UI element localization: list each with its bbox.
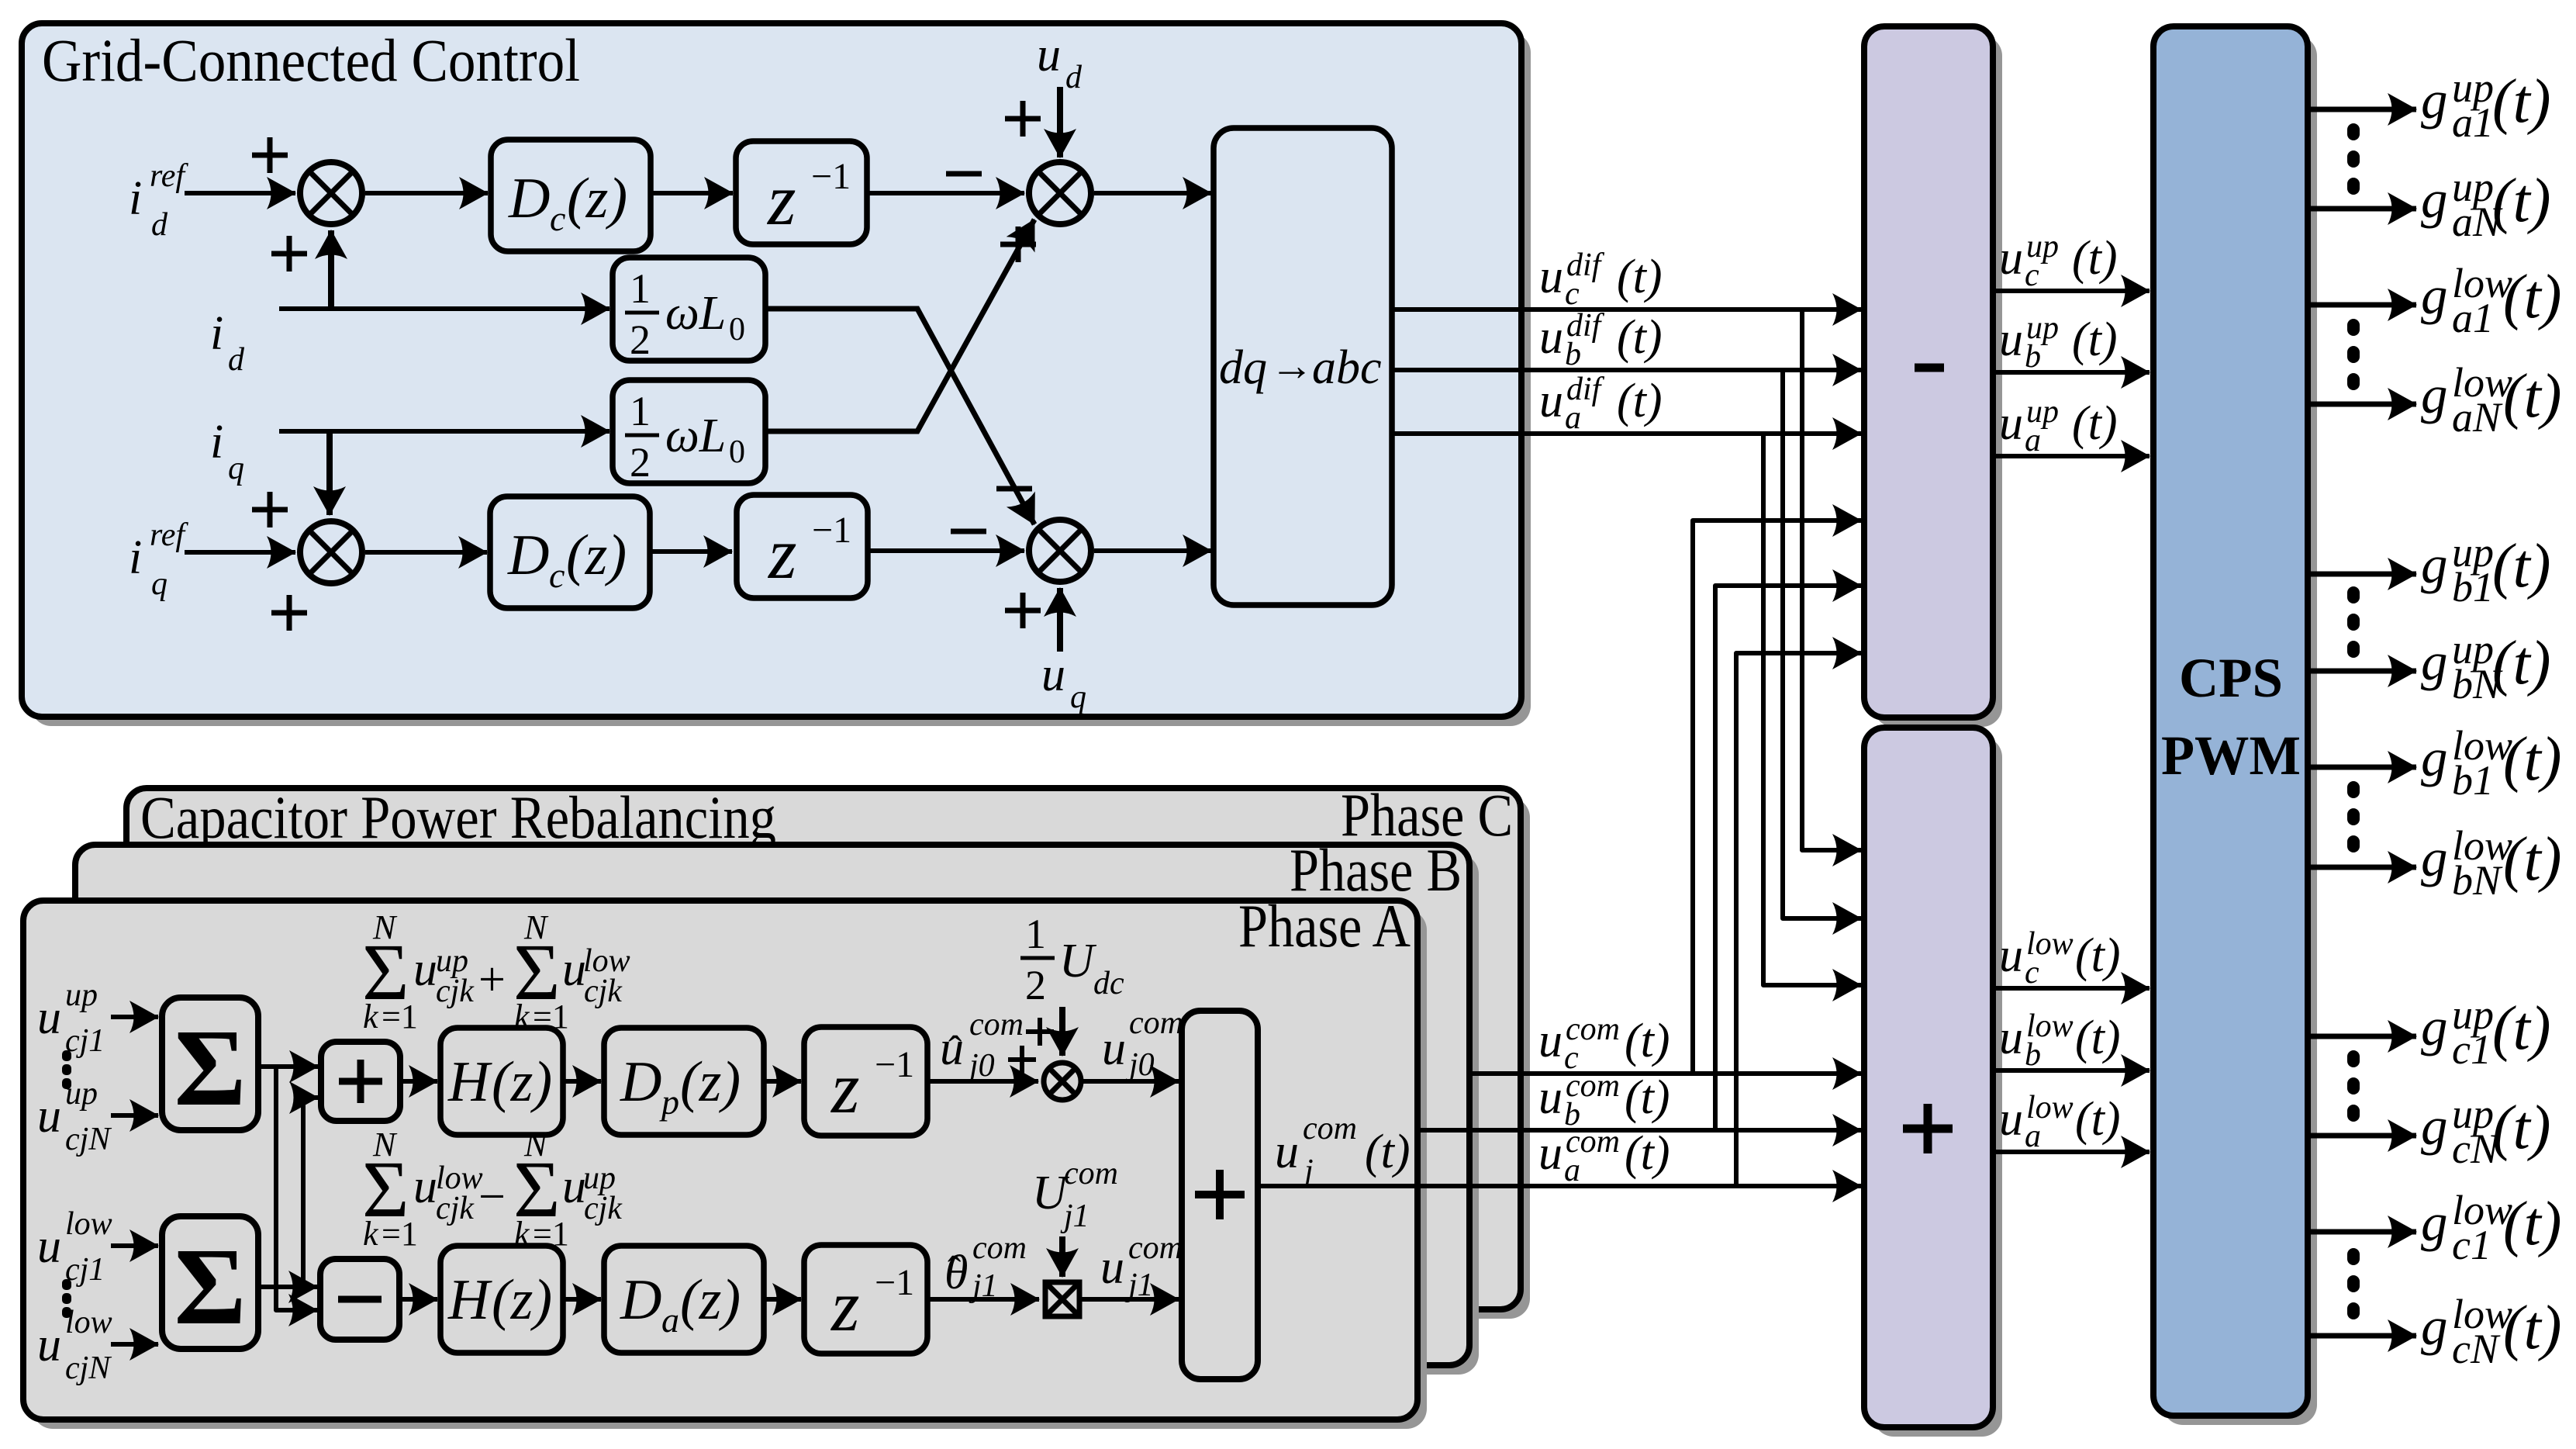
- svg-text:bN: bN: [2452, 857, 2503, 904]
- svg-text:g: g: [2421, 1297, 2448, 1356]
- dots between outputs: [2347, 586, 2360, 658]
- svg-text:u: u: [1539, 375, 1563, 427]
- block Dc(z) lower: [490, 496, 650, 608]
- svg-text:(t): (t): [2072, 313, 2118, 366]
- svg-text:g: g: [2421, 365, 2448, 424]
- wire mult box to combiner: [1079, 1297, 1179, 1302]
- svg-text:u: u: [1999, 1012, 2023, 1064]
- wire S2 to dq block: [1094, 191, 1211, 195]
- svg-text:k: k: [363, 1215, 379, 1253]
- plus box: [1864, 728, 1993, 1427]
- summing junction S1: [300, 162, 362, 224]
- svg-text:b: b: [2025, 1037, 2041, 1073]
- svg-text:N: N: [372, 1126, 398, 1164]
- label g_b1_low: [2421, 722, 2562, 804]
- wire u_cjN_low to sigma2: [111, 1342, 158, 1347]
- grid-connected control box: [22, 23, 1521, 717]
- svg-text:u: u: [1275, 1126, 1299, 1178]
- block z^-1 fourth: [804, 1245, 927, 1354]
- dots between outputs: [2347, 1050, 2360, 1122]
- minus box glyph: [1915, 364, 1944, 372]
- dots between outputs: [2347, 1248, 2360, 1319]
- svg-text:u: u: [1539, 251, 1563, 303]
- svg-text:c: c: [2025, 955, 2039, 991]
- svg-text:(t): (t): [1617, 375, 1663, 427]
- label U_j1_com: [1032, 1156, 1118, 1234]
- svg-text:g: g: [2421, 1097, 2448, 1156]
- wire z13 to mult circle: [927, 1079, 1038, 1084]
- wire g_bN_low output: [2308, 865, 2416, 870]
- svg-text:u: u: [1999, 397, 2023, 450]
- label u_j1_com: [1100, 1230, 1183, 1303]
- svg-text:q: q: [151, 566, 167, 602]
- summing junction S3: [300, 521, 362, 583]
- svg-text:low: low: [65, 1305, 112, 1340]
- wire u_c_com line: [1471, 1071, 1861, 1076]
- label u_cj1_up: [37, 977, 105, 1059]
- wire Dc2 to z12: [650, 549, 732, 554]
- svg-text:up: up: [65, 1076, 98, 1112]
- label u_a_dif: [1539, 372, 1663, 436]
- phase A box: [23, 901, 1417, 1420]
- svg-text:(z): (z): [567, 167, 627, 230]
- svg-text:(z): (z): [680, 1268, 741, 1332]
- svg-text:z: z: [767, 514, 797, 594]
- mult circle ujo: [1044, 1063, 1081, 1100]
- svg-text:g: g: [2421, 266, 2448, 325]
- svg-text:com: com: [969, 1007, 1024, 1043]
- wire H1 to Dp: [563, 1079, 601, 1084]
- svg-text:u: u: [37, 1319, 61, 1371]
- svg-text:d: d: [1065, 60, 1083, 95]
- formula sum up plus low: [362, 908, 630, 1036]
- block combiner plus: [1182, 1011, 1258, 1379]
- svg-text:com: com: [1129, 1005, 1183, 1041]
- label u_b_com: [1538, 1068, 1670, 1133]
- wire U_j1 down to mult box: [1059, 1236, 1065, 1277]
- wire i_d_ref to S1: [185, 191, 295, 195]
- plus sign mult upper: [1026, 1018, 1054, 1046]
- svg-text:(t): (t): [2072, 232, 2118, 285]
- svg-text:→: →: [1270, 342, 1314, 390]
- svg-text:d: d: [151, 207, 168, 243]
- wire u_a_low: [1993, 1150, 2150, 1154]
- label g_bN_up: [2421, 626, 2551, 707]
- wire wL2 to S2 diagonal: [765, 220, 1034, 431]
- label theta_hat_j1_com: [944, 1230, 1027, 1304]
- label g_c1_up: [2421, 991, 2551, 1073]
- wire sigma1 branch down to minus block: [276, 1067, 317, 1310]
- mult box uj1: [1045, 1282, 1079, 1316]
- svg-text:(t): (t): [2072, 397, 2118, 450]
- CPS PWM box shadow: [2163, 36, 2317, 1425]
- wire u_a_com branch up to minus box: [1736, 653, 1861, 1186]
- svg-text:k: k: [363, 998, 379, 1036]
- svg-text:(t): (t): [2503, 1294, 2562, 1362]
- svg-text:q: q: [228, 451, 244, 486]
- summing junction S4: [1029, 520, 1091, 582]
- plus sign S2 top: [1005, 101, 1041, 137]
- wire u_a_dif line: [1392, 431, 1861, 436]
- svg-text:(t): (t): [2075, 1012, 2121, 1064]
- svg-text:u: u: [1999, 313, 2023, 366]
- label g_aN_up: [2421, 164, 2551, 245]
- plus sign S2 bottom-left: [1000, 227, 1036, 262]
- label i_d: [210, 307, 245, 378]
- minus box shadow: [1873, 36, 2002, 727]
- svg-text:Capacitor Power Rebalancing: Capacitor Power Rebalancing: [140, 783, 776, 851]
- svg-text:b1: b1: [2452, 757, 2494, 804]
- svg-text:c: c: [549, 555, 565, 595]
- svg-text:+: +: [478, 953, 506, 1006]
- block z^-1 third: [804, 1027, 927, 1136]
- svg-text:(t): (t): [2492, 167, 2551, 235]
- svg-text:j1: j1: [1060, 1198, 1089, 1234]
- label u_j_com_t: [1275, 1111, 1411, 1189]
- svg-text:d: d: [228, 342, 245, 378]
- svg-text:c1: c1: [2452, 1222, 2491, 1268]
- svg-text:u: u: [1999, 929, 2023, 982]
- label g_bN_low: [2421, 822, 2562, 904]
- svg-text:i: i: [129, 172, 142, 225]
- dots between outputs: [2347, 781, 2360, 852]
- svg-text:−1: −1: [875, 1262, 914, 1303]
- svg-text:N: N: [372, 908, 398, 946]
- svg-text:u: u: [413, 1160, 437, 1213]
- svg-text:g: g: [2421, 998, 2448, 1056]
- svg-text:2: 2: [1025, 962, 1046, 1008]
- block Dc(z) upper: [491, 140, 651, 251]
- label u_c_com: [1538, 1012, 1670, 1076]
- minus box: [1864, 26, 1993, 718]
- wire u_c_dif branch down to plus box: [1802, 310, 1861, 850]
- wire g_aN_low output: [2308, 402, 2416, 407]
- block z^-1 second: [737, 495, 868, 598]
- minus sign S2 left: [946, 171, 982, 177]
- plus box glyph: [1903, 1104, 1953, 1153]
- svg-text:=1: =1: [382, 1215, 418, 1253]
- label u_hat_j0_com: [940, 1007, 1024, 1084]
- label u_b_dif: [1539, 308, 1663, 372]
- wire H2 to Da: [563, 1297, 601, 1302]
- svg-text:c: c: [2025, 258, 2039, 293]
- CPS PWM box: [2153, 26, 2308, 1416]
- plus sign S4 bottom: [1005, 593, 1041, 628]
- svg-text:0: 0: [729, 434, 745, 470]
- wire Dp to z13: [764, 1079, 801, 1084]
- svg-text:1: 1: [630, 388, 651, 434]
- svg-text:i: i: [210, 307, 223, 360]
- svg-text:ˆ: ˆ: [948, 1029, 962, 1073]
- svg-text:(t): (t): [2503, 1190, 2562, 1258]
- svg-text:up: up: [65, 977, 98, 1013]
- svg-text:(t): (t): [2492, 629, 2551, 697]
- svg-text:(t): (t): [1625, 1127, 1670, 1180]
- svg-text:u: u: [1102, 1022, 1126, 1075]
- block half-wL0 lower: [613, 380, 765, 486]
- svg-text:D: D: [620, 1050, 661, 1114]
- svg-text:a: a: [1565, 400, 1581, 436]
- wire u_d down to S2: [1057, 87, 1063, 157]
- svg-text:a1: a1: [2452, 295, 2494, 341]
- svg-text:z: z: [830, 1266, 860, 1347]
- wire i_q to wL2: [279, 429, 609, 434]
- wire g_cN_low output: [2308, 1333, 2416, 1339]
- svg-text:dq: dq: [1219, 341, 1267, 394]
- svg-text:u: u: [1999, 1093, 2023, 1146]
- plus sign S1 bottom: [271, 236, 307, 271]
- svg-text:g: g: [2421, 535, 2448, 594]
- svg-text:b: b: [2025, 339, 2041, 375]
- label u_a_com: [1538, 1124, 1670, 1188]
- minus sign S4 diagonal: [996, 486, 1032, 492]
- wire sigma2 to minus block: [258, 1285, 317, 1289]
- wire g_b1_up output: [2308, 572, 2416, 577]
- minus sign S4 left: [951, 529, 986, 534]
- svg-text:cjk: cjk: [436, 1191, 475, 1226]
- wire z14 to mult box: [927, 1297, 1039, 1302]
- svg-text:u: u: [1100, 1241, 1124, 1294]
- label u_a_low: [1999, 1090, 2121, 1154]
- svg-text:(t): (t): [1625, 1015, 1670, 1067]
- svg-text:(t): (t): [1617, 311, 1663, 364]
- plus sign S1 left: [252, 137, 288, 173]
- label g_b1_up: [2421, 529, 2551, 610]
- label u_cj1_low: [37, 1206, 112, 1288]
- dots between outputs: [2347, 319, 2360, 390]
- svg-text:(t): (t): [2075, 929, 2121, 982]
- wire i_q_ref to S3: [185, 550, 295, 555]
- label g_a1_up: [2421, 64, 2551, 146]
- phase B box shadow: [85, 854, 1479, 1375]
- wire g_b1_low output: [2308, 765, 2416, 770]
- label u_c_dif: [1539, 247, 1663, 312]
- wire wL1 to S4 diagonal: [765, 309, 1034, 524]
- svg-text:Grid-Connected Control: Grid-Connected Control: [42, 26, 580, 94]
- wire u_a_up: [1993, 454, 2150, 458]
- svg-text:−1: −1: [811, 156, 851, 197]
- label u_b_low: [1999, 1008, 2121, 1073]
- svg-text:Σ: Σ: [174, 1006, 247, 1129]
- svg-text:H: H: [447, 1268, 492, 1332]
- svg-text:D: D: [507, 524, 549, 587]
- wire g_a1_low output: [2308, 303, 2416, 308]
- wire u_b_com branch up to minus box: [1715, 586, 1861, 1130]
- wire i_d branch up to S1: [328, 230, 334, 309]
- block Da(z): [604, 1246, 764, 1353]
- svg-text:(t): (t): [2503, 725, 2562, 794]
- svg-text:g: g: [2421, 71, 2448, 130]
- svg-text:=1: =1: [382, 998, 418, 1036]
- block dq to abc: [1214, 128, 1392, 605]
- svg-text:(t): (t): [2503, 825, 2562, 894]
- label g_a1_low: [2421, 260, 2562, 341]
- svg-text:u: u: [1041, 648, 1065, 701]
- svg-text:(z): (z): [492, 1050, 552, 1114]
- label u_a_up: [1999, 394, 2118, 458]
- label u_d: [1037, 29, 1083, 95]
- wire u_c_com branch up to minus box: [1693, 520, 1861, 1074]
- svg-text:(t): (t): [1625, 1071, 1670, 1124]
- svg-text:g: g: [2421, 1193, 2448, 1252]
- wire g_c1_up output: [2308, 1034, 2416, 1039]
- svg-text:u: u: [1037, 29, 1061, 81]
- svg-text:H: H: [447, 1050, 492, 1114]
- svg-text:j0: j0: [965, 1048, 995, 1084]
- block Dp(z): [604, 1028, 764, 1135]
- block z^-1 upper: [736, 141, 867, 244]
- svg-text:a: a: [2025, 423, 2041, 458]
- wire u_cjN_up to sigma1: [111, 1113, 158, 1118]
- svg-text:N: N: [523, 908, 549, 946]
- wire u_a_dif branch down to plus box: [1763, 434, 1861, 985]
- label u_cjN_low: [37, 1305, 112, 1386]
- label u_q: [1041, 648, 1086, 715]
- label u_j0_com: [1102, 1005, 1183, 1083]
- svg-text:u: u: [1999, 232, 2023, 285]
- svg-text:com: com: [1128, 1230, 1183, 1266]
- svg-text:c1: c1: [2452, 1026, 2491, 1073]
- wire minus to H2: [399, 1297, 437, 1302]
- wire g_aN_up output: [2308, 206, 2416, 212]
- dots lower inputs: [62, 1279, 71, 1318]
- summing junction S2: [1029, 162, 1091, 224]
- svg-text:j0: j0: [1125, 1047, 1155, 1083]
- svg-text:PWM: PWM: [2161, 724, 2301, 787]
- svg-text:ref: ref: [150, 517, 188, 553]
- wire u_cj1_up to sigma1: [111, 1015, 158, 1019]
- plus sign S3 left: [252, 492, 288, 527]
- wire u_cj1_low to sigma2: [111, 1243, 158, 1248]
- phase C box shadow: [136, 797, 1530, 1319]
- wire g_cN_up output: [2308, 1133, 2416, 1139]
- svg-text:g: g: [2421, 632, 2448, 691]
- label i_q_ref: [129, 517, 188, 602]
- svg-text:dc: dc: [1093, 966, 1124, 1001]
- block sigma lower: [162, 1216, 258, 1349]
- phase A box shadow: [33, 910, 1427, 1429]
- svg-text:N: N: [523, 1126, 549, 1164]
- wire u_q up to S4: [1057, 588, 1063, 652]
- wire u_b_dif line: [1392, 368, 1861, 372]
- wire u_c_dif line: [1392, 307, 1861, 312]
- svg-text:cjk: cjk: [436, 973, 475, 1009]
- plus sign mult left: [1008, 1046, 1036, 1074]
- svg-text:Phase A: Phase A: [1238, 892, 1411, 960]
- svg-text:cjN: cjN: [65, 1122, 112, 1157]
- svg-text:0: 0: [729, 312, 745, 348]
- phase B box: [75, 845, 1469, 1365]
- plus box shadow: [1873, 737, 2002, 1437]
- svg-text:(z): (z): [566, 524, 627, 587]
- wire S1 to Dc1: [365, 191, 488, 195]
- wire half Udc down to mult: [1059, 1007, 1065, 1056]
- label u_b_up: [1999, 310, 2118, 375]
- svg-text:(t): (t): [2503, 263, 2562, 331]
- svg-text:cjk: cjk: [584, 973, 623, 1009]
- svg-text:D: D: [620, 1268, 661, 1332]
- label g_cN_low: [2421, 1291, 2562, 1372]
- wire Da to z14: [764, 1297, 801, 1302]
- svg-text:(t): (t): [2492, 994, 2551, 1063]
- svg-text:(t): (t): [2492, 1094, 2551, 1162]
- svg-text:j1: j1: [969, 1268, 998, 1304]
- svg-text:u: u: [413, 943, 437, 996]
- dots upper inputs: [62, 1050, 71, 1089]
- svg-text:(t): (t): [2075, 1093, 2121, 1146]
- svg-text:1: 1: [1025, 911, 1046, 957]
- wire i_d to wL1: [279, 306, 609, 311]
- label u_c_low: [1999, 926, 2121, 991]
- svg-text:2: 2: [630, 439, 651, 486]
- wire u_b_low: [1993, 1068, 2150, 1073]
- svg-text:z: z: [766, 160, 796, 240]
- svg-text:ωL: ωL: [665, 287, 726, 340]
- svg-text:c: c: [550, 199, 565, 238]
- wire i_q branch down to S3: [326, 431, 333, 515]
- wire sigma2 branch up to plus block: [303, 1098, 318, 1287]
- svg-text:U: U: [1059, 935, 1097, 987]
- wire u_b_up: [1993, 370, 2150, 375]
- phase C box: [126, 788, 1521, 1309]
- svg-text:a1: a1: [2452, 99, 2494, 146]
- svg-text:a: a: [1564, 1153, 1580, 1188]
- svg-text:u: u: [37, 991, 61, 1044]
- svg-text:c: c: [1565, 276, 1580, 312]
- wire mult to combiner: [1083, 1079, 1179, 1084]
- wire g_a1_up output: [2308, 107, 2416, 112]
- block H(z) lower: [440, 1246, 563, 1353]
- wire u_c_up: [1993, 289, 2150, 293]
- wire S3 to Dc2: [365, 550, 487, 555]
- label u_cjN_up: [37, 1076, 112, 1157]
- svg-text:−: −: [478, 1171, 506, 1223]
- svg-text:b1: b1: [2452, 564, 2494, 610]
- plus sign S3 bottom: [271, 595, 307, 631]
- svg-text:2: 2: [630, 316, 651, 363]
- wire Dc1 to z11: [651, 191, 733, 195]
- label g_c1_low: [2421, 1187, 2562, 1268]
- svg-text:D: D: [508, 167, 550, 230]
- svg-text:Σ: Σ: [174, 1225, 247, 1347]
- svg-text:g: g: [2421, 170, 2448, 229]
- svg-text:a: a: [661, 1300, 679, 1340]
- wire S4 to dq block: [1094, 548, 1211, 553]
- svg-text:ref: ref: [150, 158, 188, 194]
- svg-text:(t): (t): [1365, 1126, 1411, 1178]
- label u_c_up: [1999, 229, 2118, 293]
- svg-text:u: u: [1539, 311, 1563, 364]
- block sigma upper: [162, 998, 258, 1130]
- grid-connected control box shadow: [31, 33, 1531, 726]
- svg-text:(t): (t): [1617, 251, 1663, 303]
- svg-text:g: g: [2421, 828, 2448, 887]
- wire u_a_com line from combiner: [1258, 1184, 1861, 1188]
- svg-text:CPS: CPS: [2179, 647, 2283, 709]
- svg-text:low: low: [65, 1206, 112, 1242]
- wire g_bN_up output: [2308, 669, 2416, 674]
- block minus small: [320, 1259, 399, 1340]
- svg-text:q: q: [1070, 680, 1086, 715]
- svg-text:(t): (t): [2492, 67, 2551, 136]
- svg-text:u: u: [37, 1090, 61, 1143]
- svg-text:u: u: [1538, 1015, 1563, 1067]
- wire u_b_com line: [1418, 1128, 1861, 1133]
- svg-text:com: com: [972, 1230, 1027, 1266]
- dots between outputs: [2347, 123, 2360, 195]
- svg-text:aN: aN: [2452, 394, 2503, 441]
- svg-text:(t): (t): [2492, 532, 2551, 600]
